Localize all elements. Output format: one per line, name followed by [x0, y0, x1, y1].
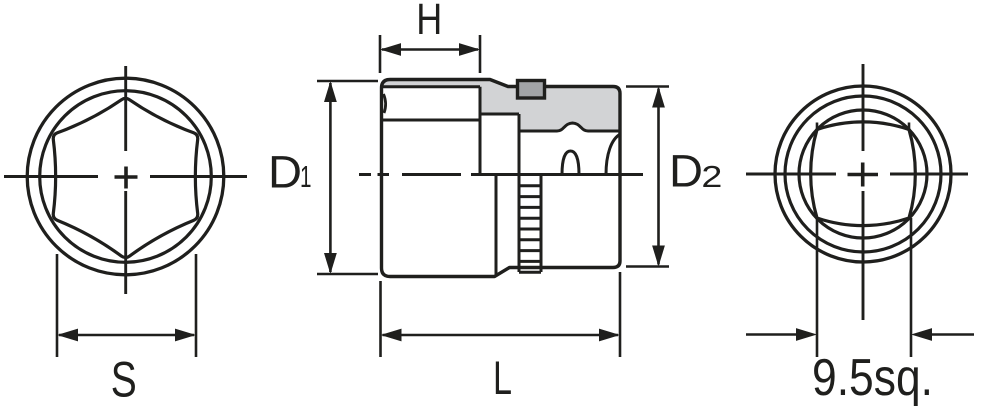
D1 extension line top	[317, 80, 378, 83]
square corner stub top-right	[908, 123, 911, 132]
hex bore depth line	[383, 119, 480, 122]
D2 arrow top	[652, 87, 665, 108]
H arrow right	[459, 43, 480, 56]
center mark cross (left view)	[115, 167, 138, 189]
L extension line right	[619, 272, 622, 357]
L dimension line	[383, 334, 619, 337]
9.5sq arrow right (pointing left)	[911, 328, 932, 341]
svg-text:9.5sq.: 9.5sq.	[812, 349, 933, 407]
L arrow left	[381, 329, 402, 342]
left face chamfer arc	[384, 94, 386, 113]
D1 arrow top	[324, 81, 337, 102]
L extension line left	[379, 281, 382, 357]
internal window right vertical / knurl left rail	[518, 114, 521, 272]
wavy section boundary line	[519, 123, 620, 131]
outer circle (drive end)	[775, 86, 951, 262]
svg-text:H: H	[416, 0, 442, 44]
D2 dimension line	[657, 89, 660, 265]
socket body outline	[382, 80, 621, 277]
D2 extension line bottom	[626, 265, 669, 268]
S extension line left	[56, 254, 59, 357]
D1 arrow bottom	[324, 253, 337, 274]
svg-text:1: 1	[300, 159, 312, 194]
internal step vertical (x=480)	[479, 87, 482, 175]
S extension line right	[195, 254, 198, 357]
S dimension line	[59, 334, 194, 337]
D2 extension line top	[626, 85, 669, 88]
9.5sq dimension line left segment	[746, 333, 796, 336]
knurl band right rail	[540, 175, 543, 273]
inner circle (socket rim)	[40, 91, 212, 263]
center mark cross (right view)	[848, 163, 879, 187]
gray shaded upper body (drive-end section)	[480, 80, 620, 132]
svg-text:D: D	[669, 146, 703, 197]
9.5sq arrow left (pointing right)	[796, 328, 817, 341]
L arrow right	[599, 329, 620, 342]
D2 arrow bottom	[652, 246, 665, 267]
D1 extension line bottom	[317, 273, 378, 276]
svg-text:D: D	[268, 147, 302, 198]
hex bore inner line (top)	[383, 85, 480, 88]
internal window top line	[480, 113, 519, 116]
hexagon bore	[53, 98, 197, 257]
horizontal centerline (left view)	[4, 175, 247, 178]
H arrow left	[380, 43, 401, 56]
svg-text:2: 2	[701, 159, 722, 194]
9.5sq extension line right	[910, 218, 913, 357]
S dimension arrow left	[57, 329, 78, 342]
D1 dimension line	[329, 83, 332, 272]
knurl ring small arch	[562, 151, 579, 175]
vertical centerline (right view)	[862, 64, 865, 320]
horizontal centerline (right view)	[746, 173, 968, 176]
9.5sq extension line left	[816, 218, 819, 357]
inner circle (drive end)	[799, 110, 927, 238]
H extension line left	[379, 35, 382, 73]
svg-text:S: S	[111, 352, 137, 408]
gray shaded top band (hex-end section)	[382, 80, 480, 87]
centerline / shoulder line through side view	[359, 173, 643, 176]
outer circle (socket outside diameter, front view)	[27, 78, 224, 275]
knurl band rungs	[519, 186, 541, 272]
square drive hole	[811, 122, 916, 226]
svg-text:L: L	[493, 351, 512, 404]
lower body step vertical (x=496)	[495, 175, 498, 276]
H extension line right	[479, 35, 482, 73]
drive neck arc	[606, 134, 621, 175]
square corner stub top-left	[816, 123, 819, 132]
S dimension arrow right	[175, 329, 196, 342]
spring pin square	[518, 81, 545, 99]
H dimension line	[382, 48, 478, 51]
vertical centerline (left view)	[124, 66, 127, 294]
middle circle (drive end)	[785, 96, 941, 252]
9.5sq dimension line right segment	[932, 333, 974, 336]
